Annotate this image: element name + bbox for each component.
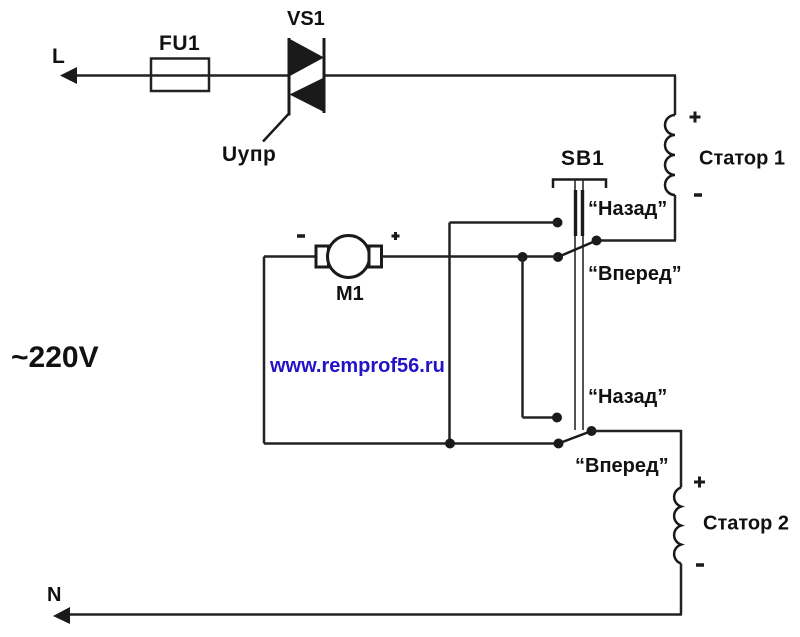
wire L top line left of fuse — [68, 74, 151, 77]
svg-text:www.remprof56.ru: www.remprof56.ru — [269, 355, 445, 377]
svg-text:VS1: VS1 — [287, 8, 325, 30]
svg-text:“Вперед”: “Вперед” — [588, 263, 682, 285]
switch SB1 bracket — [553, 180, 606, 189]
node upper switch output dot — [592, 236, 602, 246]
label motor minus — [297, 234, 305, 238]
svg-text:~220V: ~220V — [11, 341, 99, 374]
wire motor right horizontal — [382, 255, 559, 258]
triac VS1 lower triangle — [290, 78, 325, 113]
svg-text:“Назад”: “Назад” — [588, 386, 667, 408]
node N arrowhead — [53, 607, 70, 624]
wire vertical to lower contact — [521, 257, 524, 418]
svg-text:N: N — [47, 584, 61, 606]
triac VS1 upper triangle — [289, 39, 324, 77]
fuse FU1 — [151, 59, 209, 92]
switch SB1 link bar thick segment — [576, 190, 583, 236]
wire stator1 bottom horizontal — [597, 239, 677, 242]
wire left vertical from motor — [263, 257, 266, 444]
switch SB1 link bar thin lines — [575, 180, 583, 430]
wire middle vertical — [448, 223, 451, 444]
wire lower switch to stator 2 — [592, 431, 682, 488]
label Stator 1 plus — [690, 112, 701, 123]
svg-text:“Назад”: “Назад” — [588, 198, 667, 220]
wire bottom horizontal of motor loop — [264, 442, 559, 445]
motor M1 left wire — [264, 255, 316, 258]
motor M1 right brush — [369, 246, 382, 267]
inductor Stator 2 coil — [674, 488, 681, 564]
svg-text:Uупр: Uупр — [222, 143, 276, 166]
svg-text:Статор 1: Статор 1 — [699, 148, 785, 170]
switch upper blade — [558, 241, 597, 258]
svg-text:L: L — [52, 45, 65, 68]
label Stator 1 minus — [694, 193, 702, 197]
svg-text:FU1: FU1 — [159, 32, 200, 55]
switch lower blade — [559, 431, 592, 444]
node upper switch pivot dot — [553, 252, 563, 262]
triac VS1 gate wire — [263, 114, 289, 142]
wire right vertical above stator 1 — [674, 76, 677, 116]
triac VS1 right bar — [323, 38, 326, 113]
label Stator 2 minus — [696, 563, 704, 567]
node middle junction dot — [518, 252, 528, 262]
wire lower contact horizontal — [523, 416, 558, 419]
motor M1 left brush — [316, 246, 329, 267]
wire right vertical below stator 1 — [674, 195, 677, 241]
node bottom junction dot — [445, 439, 455, 449]
node L arrowhead — [60, 67, 77, 84]
label motor plus — [392, 232, 400, 240]
label Stator 2 plus — [694, 477, 705, 488]
wire N bottom horizontal — [62, 613, 682, 616]
svg-text:Статор 2: Статор 2 — [703, 513, 789, 535]
node lower switch open contact dot — [552, 413, 562, 423]
wire L fuse to triac — [151, 74, 289, 77]
node lower switch output dot — [587, 426, 597, 436]
svg-text:“Вперед”: “Вперед” — [575, 455, 669, 477]
svg-text:SB1: SB1 — [561, 147, 605, 170]
triac VS1 left bar — [288, 38, 291, 116]
motor M1 body — [328, 236, 370, 278]
wire right vertical below stator 2 — [680, 564, 683, 615]
wire upper contact horizontal — [450, 221, 558, 224]
node lower switch pivot dot — [554, 439, 564, 449]
node upper switch open contact dot — [553, 218, 563, 228]
inductor Stator 1 coil — [665, 115, 675, 195]
wire triac to right corner — [324, 74, 676, 77]
svg-text:M1: M1 — [336, 283, 364, 305]
